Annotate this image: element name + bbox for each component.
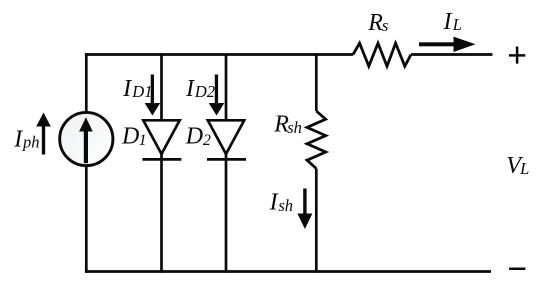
svg-text:I: I	[269, 190, 279, 216]
svg-text:D: D	[185, 123, 203, 149]
current source internal up arrow	[79, 117, 93, 163]
label Rsh	[273, 111, 302, 137]
svg-text:L: L	[452, 15, 462, 34]
wire: D2 vertical branch	[225, 53, 228, 273]
wire: top bus left segment (node A to Rs)	[85, 53, 353, 56]
svg-text:2: 2	[203, 132, 211, 149]
wire: D1 vertical branch	[160, 53, 163, 273]
svg-text:D2: D2	[194, 82, 215, 101]
ID1 current arrow (down)	[145, 75, 161, 116]
- terminal symbol	[509, 267, 525, 270]
label D1	[121, 123, 147, 149]
diode D1	[142, 120, 181, 159]
IL current arrow (right)	[419, 37, 476, 52]
Ish current arrow (down)	[297, 189, 312, 230]
svg-text:D: D	[121, 123, 139, 149]
wire: Rsh vertical branch lower	[315, 169, 318, 273]
resistor Rs (horizontal zigzag)	[353, 43, 411, 66]
svg-text:1: 1	[139, 132, 147, 149]
svg-text:D1: D1	[131, 82, 152, 101]
svg-text:I: I	[185, 76, 195, 102]
label Ish	[269, 190, 293, 216]
wire: top bus right segment (Rs to + terminal)	[411, 53, 493, 56]
Iph current arrow (external, up)	[36, 113, 51, 155]
label IL	[443, 9, 462, 35]
label ID1	[122, 76, 152, 102]
svg-text:sh: sh	[278, 196, 293, 215]
svg-text:ph: ph	[22, 133, 40, 152]
svg-text:L: L	[519, 159, 529, 178]
label VL	[506, 153, 529, 179]
label ID2	[185, 76, 215, 102]
svg-text:I: I	[13, 127, 23, 153]
current source Iph (circle)	[60, 112, 113, 165]
svg-text:I: I	[122, 76, 132, 102]
resistor Rsh (vertical zigzag)	[307, 111, 326, 169]
label Rs	[367, 10, 388, 36]
svg-text:sh: sh	[287, 118, 302, 137]
wire: bottom bus	[85, 270, 491, 273]
wire: left vertical branch through current source	[85, 53, 88, 273]
svg-text:I: I	[443, 9, 453, 35]
ID2 current arrow (down)	[209, 75, 225, 116]
wire: Rsh vertical branch upper	[315, 53, 318, 111]
svg-text:s: s	[382, 16, 388, 35]
svg-text:R: R	[367, 10, 383, 36]
label Iph	[13, 127, 39, 153]
label D2	[185, 123, 211, 149]
+ terminal symbol	[509, 47, 525, 64]
diode D2	[207, 120, 246, 159]
